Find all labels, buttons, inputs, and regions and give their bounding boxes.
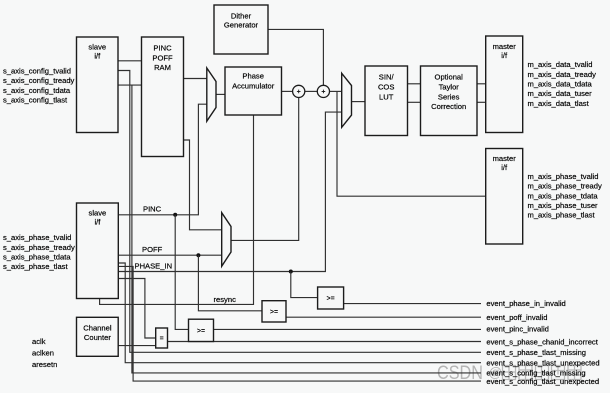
wire mux M1 output to Phase Accumulator xyxy=(216,93,225,95)
svg-text:event_s_phase_tlast_unexpected: event_s_phase_tlast_unexpected xyxy=(486,358,599,367)
svg-text:m_axis_data_tvalid: m_axis_data_tvalid xyxy=(528,60,593,69)
wire adder A2 to mux M2 xyxy=(330,90,342,92)
wire event_s_config_tlast_unexpected (from slave phase i/f) xyxy=(118,266,481,381)
svg-text:s_axis_phase_tdata: s_axis_phase_tdata xyxy=(3,253,71,262)
svg-text:i/f: i/f xyxy=(94,52,101,61)
wire resync from slave phase i/f to Phase Accumulator xyxy=(100,115,254,304)
svg-text:master: master xyxy=(493,154,517,163)
block Dither Generator xyxy=(214,5,268,54)
svg-text:master: master xyxy=(493,42,517,51)
svg-text:m_axis_phase_tuser: m_axis_phase_tuser xyxy=(528,201,599,210)
node POFF junction xyxy=(196,253,200,257)
svg-text:Series: Series xyxy=(438,92,460,101)
wire event_phase_in_invalid from comparator xyxy=(344,303,481,305)
wire Taylor to master data i/f upper xyxy=(477,83,486,85)
svg-text:event_poff_invalid: event_poff_invalid xyxy=(486,313,547,322)
mux M3 (PINC/POFF select) xyxy=(222,213,231,267)
node PHASE_IN junction xyxy=(289,270,293,274)
svg-text:m_axis_data_tlast: m_axis_data_tlast xyxy=(528,99,590,108)
svg-text:Dither: Dither xyxy=(231,12,252,21)
svg-text:POFF: POFF xyxy=(142,245,163,254)
svg-text:m_axis_phase_tready: m_axis_phase_tready xyxy=(528,182,602,191)
svg-text:m_axis_phase_tvalid: m_axis_phase_tvalid xyxy=(528,172,599,181)
svg-text:Generator: Generator xyxy=(224,21,259,30)
block master i/f (data) xyxy=(486,36,523,133)
wire RAM to mux M1 xyxy=(184,78,207,80)
svg-text:aclken: aclken xyxy=(32,348,54,357)
svg-text:m_axis_data_tuser: m_axis_data_tuser xyxy=(528,89,593,98)
svg-text:m_axis_data_tdata: m_axis_data_tdata xyxy=(528,80,593,89)
svg-text:PINC: PINC xyxy=(143,204,162,213)
svg-text:PHASE_IN: PHASE_IN xyxy=(135,261,173,270)
wire event_pinc_invalid from comparator xyxy=(214,328,482,330)
svg-text:RAM: RAM xyxy=(154,63,171,72)
svg-text:s_axis_phase_tvalid: s_axis_phase_tvalid xyxy=(3,233,71,242)
watermark CSDN xyxy=(437,363,581,384)
wire POFF from slave phase i/f to mux M3 xyxy=(118,254,221,256)
block master i/f (phase) xyxy=(486,149,523,245)
comparator >= (phase_in) xyxy=(318,287,344,309)
wire PHASE_IN branch down to comparator xyxy=(291,272,318,298)
mux M2 (phase select) xyxy=(342,73,352,127)
wire event_s_phase_tlast_unexpected (from slave phase i/f) xyxy=(118,263,481,363)
svg-text:m_axis_phase_tdata: m_axis_phase_tdata xyxy=(528,191,599,200)
block slave i/f (phase) xyxy=(77,203,119,299)
svg-text:i/f: i/f xyxy=(501,51,508,60)
svg-text:m_axis_data_tready: m_axis_data_tready xyxy=(528,70,597,79)
svg-text:i/f: i/f xyxy=(94,218,101,227)
svg-text:s_axis_config_tready: s_axis_config_tready xyxy=(3,76,75,85)
wire RAM step down to mux M3 xyxy=(184,140,222,230)
svg-text:slave: slave xyxy=(88,43,106,52)
svg-text:SIN/: SIN/ xyxy=(379,73,395,82)
svg-text:Channel: Channel xyxy=(83,323,112,332)
wire PINC branch down to comparator xyxy=(175,215,188,330)
wire Phase Accumulator to adder A1 xyxy=(282,90,293,92)
svg-text:LUT: LUT xyxy=(379,92,394,101)
svg-text:i/f: i/f xyxy=(501,163,508,172)
svg-text:>=: >= xyxy=(327,296,335,303)
svg-text:event_s_config_tlast_unexpecte: event_s_config_tlast_unexpected xyxy=(486,377,599,386)
wire POFF branch down to comparator xyxy=(198,255,262,311)
svg-text:s_axis_config_tdata: s_axis_config_tdata xyxy=(3,86,71,95)
wire PHASE_IN from slave phase i/f up to mux M2 xyxy=(118,112,341,271)
svg-text:s_axis_config_tvalid: s_axis_config_tvalid xyxy=(3,66,71,75)
wire slave config to RAM lower xyxy=(118,84,142,86)
svg-text:slave: slave xyxy=(89,209,107,218)
mux M1 (PINC select) xyxy=(207,68,216,121)
block slave i/f (config) xyxy=(77,37,119,133)
svg-text:POFF: POFF xyxy=(152,53,173,62)
svg-text:Taylor: Taylor xyxy=(439,83,460,92)
wire Channel Counter output to equality comparator xyxy=(118,345,156,347)
wire mux M2 output to SIN/COS LUT xyxy=(352,101,366,103)
block PINC POFF RAM xyxy=(142,37,184,157)
svg-text:s_axis_config_tlast: s_axis_config_tlast xyxy=(3,96,68,105)
block Phase Accumulator xyxy=(225,67,282,115)
svg-text:Counter: Counter xyxy=(84,333,111,342)
svg-text:Phase: Phase xyxy=(242,71,264,80)
adder A2 xyxy=(317,85,329,97)
wire event_s_config_tlast_missing (branch of lower config wire) xyxy=(132,85,481,373)
svg-text:event_s_phase_chanid_incorrect: event_s_phase_chanid_incorrect xyxy=(486,337,598,346)
svg-text:s_axis_phase_tlast: s_axis_phase_tlast xyxy=(3,262,68,271)
wire Taylor to master data i/f lower xyxy=(477,101,486,103)
wire event_poff_invalid from comparator xyxy=(286,316,481,318)
wire SIN/COS LUT to Taylor lower xyxy=(408,101,421,103)
svg-text:resync: resync xyxy=(214,295,237,304)
block SIN/COS LUT xyxy=(365,66,408,136)
svg-text:m_axis_phase_tlast: m_axis_phase_tlast xyxy=(528,211,596,220)
wire adder A1 to adder A2 xyxy=(305,90,318,92)
svg-text:aresetn: aresetn xyxy=(32,360,57,369)
svg-text:PINC: PINC xyxy=(153,44,172,53)
wire event_s_phase_tlast_missing (from slave config i/f) xyxy=(118,71,481,353)
svg-text:COS: COS xyxy=(378,83,394,92)
wire PINC from slave phase i/f up to mux M1 xyxy=(118,104,207,215)
node PINC junction xyxy=(173,213,177,217)
svg-text:>=: >= xyxy=(197,328,205,335)
adder A1 xyxy=(293,85,305,97)
wire SIN/COS LUT to Taylor upper xyxy=(408,83,421,85)
svg-text:event_pinc_invalid: event_pinc_invalid xyxy=(486,325,548,334)
block Optional Taylor Series Correction xyxy=(421,66,478,136)
comparator = (chanid) xyxy=(156,328,168,348)
svg-text:Optional: Optional xyxy=(435,73,464,82)
wire mux M3 output up to adder A1 xyxy=(231,98,299,241)
svg-text:aclk: aclk xyxy=(32,337,46,346)
wire channel id to equality comparator xyxy=(118,279,155,339)
wire slave config to RAM upper xyxy=(118,60,142,62)
svg-text:>=: >= xyxy=(270,309,278,316)
svg-text:event_s_phase_tlast_missing: event_s_phase_tlast_missing xyxy=(486,348,586,357)
svg-text:event_phase_in_invalid: event_phase_in_invalid xyxy=(486,299,565,308)
wire event_s_phase_chanid_incorrect from equality comparator xyxy=(168,341,482,343)
svg-text:Accumulator: Accumulator xyxy=(232,81,275,90)
comparator >= (pinc) xyxy=(189,319,214,341)
svg-text:Correction: Correction xyxy=(431,102,466,111)
svg-text:s_axis_phase_tready: s_axis_phase_tready xyxy=(3,243,75,252)
wire phase tap to master phase i/f xyxy=(337,91,486,196)
comparator >= (poff) xyxy=(262,301,286,322)
svg-text:=: = xyxy=(160,336,164,343)
block Channel Counter xyxy=(77,317,119,356)
wire Dither Generator to adder A2 xyxy=(268,29,323,85)
